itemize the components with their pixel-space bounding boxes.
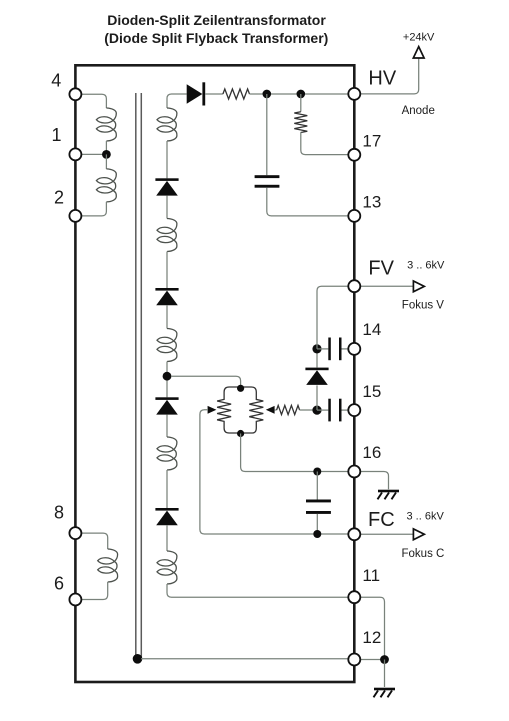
junction dot node D (312, 344, 321, 353)
svg-text:6: 6 (54, 574, 64, 594)
svg-text:12: 12 (362, 628, 381, 647)
pin 8 terminal (69, 527, 81, 539)
potentiometer bottom junction dot (237, 430, 244, 437)
wire capacitor C4 to FC line (316, 514, 318, 534)
svg-text:+24kV: +24kV (403, 31, 435, 43)
pin 2 terminal (69, 210, 81, 222)
svg-text:Dioden-Split Zeilentransformat: Dioden-Split Zeilentransformator (107, 12, 326, 28)
wire winding S2 to diode D3 (166, 252, 168, 289)
wire center tap to winding P2 (105, 154, 107, 169)
wire core dot to pin 12 (141, 658, 349, 660)
diode D5 (155, 508, 178, 525)
svg-text:Anode: Anode (402, 105, 435, 117)
core line left (135, 93, 137, 657)
secondary winding S2 (157, 219, 177, 252)
primary winding P3 (98, 549, 118, 582)
capacitor C3 (328, 399, 341, 422)
pin 13 terminal (348, 210, 360, 222)
pin 1 terminal (69, 148, 81, 160)
wiper arrow W2 (266, 406, 275, 414)
wire FC pin to arrow (360, 533, 414, 535)
wire diode D5 to winding S5 (166, 525, 168, 551)
FC arrow right (413, 529, 424, 540)
wire wiper W2 to resistor R3 (274, 409, 276, 411)
svg-text:FV: FV (368, 258, 394, 280)
junction dot node B (297, 90, 306, 99)
wire capacitor C2 to pin 14 (342, 348, 350, 350)
diode D4 (155, 397, 178, 414)
junction dot node C (312, 406, 321, 415)
resistor R2 (294, 112, 307, 133)
pin 11 terminal (348, 591, 360, 603)
svg-text:(Diode Split Flyback Transform: (Diode Split Flyback Transformer) (104, 30, 328, 46)
resistor R3 (277, 405, 300, 414)
pin 15 terminal (348, 404, 360, 416)
core line right (140, 93, 142, 657)
junction dot node F (313, 530, 321, 538)
svg-text:Fokus V: Fokus V (402, 299, 445, 311)
wire winding S3 to tap junction (166, 362, 168, 398)
wire node G to ground (384, 660, 386, 688)
wire winding S4 to diode D5 (166, 470, 168, 508)
potentiometer P1 loop (217, 387, 263, 433)
wire node D to capacitor C2 (317, 348, 328, 350)
svg-text:15: 15 (362, 382, 381, 401)
wire capacitor C3 to pin 15 (342, 409, 350, 411)
wire capacitor C1 to pin 13 (267, 188, 349, 216)
pin 6 terminal (69, 594, 81, 606)
svg-text:2: 2 (54, 188, 64, 208)
secondary winding S3 (157, 329, 177, 362)
pin 14 terminal (348, 343, 360, 355)
diode D3 (155, 288, 178, 305)
wire winding P1 to center tap (105, 141, 107, 154)
capacitor C2 (328, 338, 341, 361)
svg-text:Fokus C: Fokus C (402, 548, 445, 560)
svg-text:11: 11 (362, 566, 380, 585)
wire node A to capacitor C1 (266, 94, 268, 175)
wire diode D6 to node D (316, 349, 318, 368)
anode arrow up (413, 47, 424, 58)
pin 12 terminal (348, 654, 360, 666)
HV rectifier diode D1 (187, 82, 206, 105)
svg-text:3 .. 6kV: 3 .. 6kV (407, 511, 445, 523)
pin 16 terminal (348, 466, 360, 478)
ground G2 (374, 688, 396, 698)
capacitor C1 (255, 175, 280, 188)
transformer outline box (75, 65, 354, 682)
primary winding P2 (96, 169, 116, 202)
potentiometer top junction dot (237, 385, 244, 392)
wire winding S1 to diode D2 (166, 141, 168, 178)
secondary winding S5 (157, 551, 177, 584)
wire node B to resistor R2 (300, 94, 302, 112)
svg-text:HV: HV (368, 68, 396, 90)
wire winding P2 to pin2 (81, 202, 106, 216)
wire secondary top to HV diode (167, 94, 187, 108)
junction dot node G (380, 655, 389, 664)
svg-text:8: 8 (54, 503, 64, 523)
wire pin1 to center tap (81, 153, 106, 155)
wire node D up to FV pin (317, 286, 349, 349)
primary center tap junction dot (102, 150, 111, 159)
wire diode D1 to resistor R1 (205, 93, 223, 95)
wire FV pin to arrow (360, 285, 414, 287)
wire winding S5 to pin 11 (167, 584, 349, 597)
ground G1 (378, 490, 400, 500)
wire resistor R3 to node C (300, 409, 317, 411)
wire pin 16 to ground (360, 472, 389, 490)
secondary tap junction dot (163, 372, 172, 381)
secondary winding S1 (157, 108, 177, 141)
wire pin4 to primary winding top (81, 94, 106, 108)
wire winding P3 to pin6 (81, 582, 108, 600)
wire diode D2 to winding S2 (166, 196, 168, 219)
wire wiper W1 down to FC line (200, 410, 349, 534)
wire pin8 to primary winding P3 (81, 533, 108, 549)
wire resistor R2 to pin 17 (301, 132, 349, 155)
pin HV terminal (348, 88, 360, 100)
wire diode D4 to winding S4 (166, 415, 168, 437)
svg-text:FC: FC (368, 509, 395, 531)
svg-text:16: 16 (362, 443, 381, 462)
resistor R1 (223, 89, 250, 99)
diode D6 (305, 368, 328, 385)
pin FC terminal (348, 528, 360, 540)
wire pin 12 to ground junction (360, 659, 385, 661)
svg-text:1: 1 (52, 125, 62, 145)
wire node E to capacitor C4 (316, 472, 318, 500)
svg-text:17: 17 (362, 131, 381, 150)
wire potentiometer bottom to pin 16 (241, 434, 349, 472)
wiper arrow W1 (208, 406, 217, 414)
svg-text:3 .. 6kV: 3 .. 6kV (407, 260, 445, 272)
junction dot node E (313, 468, 321, 476)
svg-text:14: 14 (362, 320, 381, 339)
primary winding P1 (96, 108, 116, 141)
pin FV terminal (348, 280, 360, 292)
capacitor C4 (306, 500, 331, 514)
wire diode D3 to winding S3 (166, 305, 168, 328)
FV arrow right (413, 281, 424, 292)
svg-text:4: 4 (51, 70, 61, 90)
pin 4 terminal (69, 88, 81, 100)
wire node C to diode D6 (316, 385, 318, 410)
wire pin 11 to ground junction (360, 597, 385, 659)
wire tap to potentiometer top (171, 376, 241, 388)
wire node C to capacitor C3 (317, 409, 328, 411)
pin 17 terminal (348, 149, 360, 161)
svg-text:13: 13 (362, 192, 381, 211)
wire resistor R1 to HV pin (250, 93, 350, 95)
secondary winding S4 (157, 437, 177, 470)
wire HV pin to anode arrow (360, 58, 419, 94)
junction dot node A (263, 90, 272, 99)
diode D2 (155, 178, 178, 195)
core bottom junction dot (133, 654, 143, 664)
